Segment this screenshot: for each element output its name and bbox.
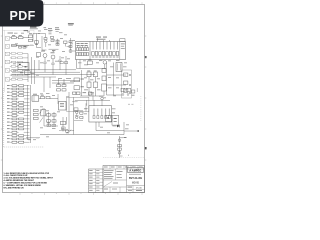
resistor array row 13 — [7, 125, 30, 127]
resistor R38 mid — [62, 83, 66, 87]
input jack J5 — [5, 69, 10, 73]
dotted marks row — [128, 103, 133, 106]
resistor R55 — [52, 120, 56, 122]
resistor array row 8 — [7, 108, 30, 110]
resistor R57 — [52, 124, 56, 126]
svg-text:SVT-CL/AV: SVT-CL/AV — [129, 176, 143, 180]
triode V2B — [41, 51, 47, 62]
dashed feedback line — [140, 96, 142, 121]
array enclosure dashed — [4, 88, 44, 147]
triode V1B — [56, 39, 59, 45]
wire ps top links — [72, 92, 110, 106]
pot VR1 — [34, 109, 44, 114]
pot VR3 — [34, 117, 44, 122]
wire array collector 2 — [30, 85, 32, 143]
resistor R35 — [94, 82, 98, 88]
tone board slide elements — [77, 46, 89, 56]
wire vertical branch x36 — [37, 34, 42, 48]
label LIVE block — [30, 27, 46, 30]
wire drop x96 x99 — [96, 122, 99, 131]
wire long riser x69 — [68, 92, 70, 130]
tone board labels — [77, 43, 88, 46]
driver board outline — [67, 97, 89, 111]
resistor array row 11 — [7, 118, 30, 120]
capacitor C3 — [51, 40, 54, 42]
input network resistor row 3 — [10, 61, 28, 63]
resistor array row 14 — [7, 128, 30, 130]
resistor R32 — [87, 71, 91, 77]
input network resistor row 5 — [10, 70, 28, 72]
EQ capacitor columns — [92, 42, 125, 60]
wire driver verticals — [107, 63, 114, 96]
triode V1A — [44, 34, 47, 48]
label cluster A — [48, 28, 53, 32]
pilot triode V9 — [99, 96, 103, 106]
wire rail B — [40, 134, 124, 136]
wire riser x81.5 — [81, 70, 83, 96]
capacitor C4 — [69, 41, 72, 43]
bias cluster left — [74, 111, 83, 121]
wire x63 drop — [63, 117, 67, 129]
triode V3A — [103, 61, 107, 69]
wire R1 to R2 — [16, 37, 18, 39]
zone tick marks left border — [1, 36, 3, 160]
label INPUT — [8, 32, 14, 35]
label cluster B — [55, 27, 60, 31]
label 12AX7 top — [24, 29, 29, 32]
rectifier block — [73, 92, 87, 95]
resistor R41 — [124, 81, 131, 86]
resistor R39 mid — [57, 89, 61, 91]
label CHANNEL 1 — [68, 23, 74, 25]
resistor R56 — [47, 123, 51, 127]
ground symbol input stage — [52, 50, 55, 51]
input network resistor row 1 — [10, 53, 28, 55]
capacitor C20 — [25, 71, 31, 74]
wire bus line 4 — [12, 76, 56, 78]
resistor R7 — [64, 41, 68, 47]
input jack J3 — [5, 52, 10, 56]
diode D1 — [113, 125, 120, 128]
resistor R3 — [29, 39, 33, 41]
channel 2 gain cluster — [18, 63, 29, 70]
resistor R4b marks — [11, 45, 34, 48]
input jack J4 — [5, 60, 10, 64]
sheet border frame — [3, 5, 145, 193]
input jack J1 — [5, 37, 10, 41]
resistor array row 15 — [7, 131, 30, 133]
resistor array row 2 — [7, 88, 30, 90]
notes block — [4, 172, 54, 190]
resistor array row 3 — [7, 91, 30, 93]
triode V2C — [51, 52, 56, 64]
capacitor C10 — [88, 60, 93, 65]
svg-text:AMPEG: AMPEG — [132, 169, 142, 172]
label above EQ box — [96, 37, 107, 40]
EQ top corner box — [120, 39, 125, 42]
tolerance notes cell — [103, 169, 127, 180]
fuse F1 — [89, 92, 92, 95]
resistor array row 10 — [7, 115, 30, 117]
resistor R1 — [12, 35, 17, 39]
tone switch assembly box — [76, 42, 126, 60]
relay K1 box — [32, 94, 39, 101]
wire EQ box outputs down — [77, 60, 81, 69]
input network resistor row 2 — [10, 57, 28, 59]
dashed shield boundary top — [4, 31, 35, 93]
resistor R8 — [69, 46, 72, 48]
revisions header dashed — [103, 155, 145, 158]
resistor R30 stack — [74, 78, 84, 82]
ground symbol bottom — [62, 129, 65, 131]
svg-text:6. WARNING: LETHAL VOLTAGES IN: 6. WARNING: LETHAL VOLTAGES INSIDE — [4, 184, 42, 187]
wire cathode return — [49, 48, 59, 50]
wire EQ feed stubs — [98, 38, 110, 42]
resistor R2b row — [12, 44, 30, 46]
wire array collector 1 — [27, 85, 29, 140]
resistor array row 18 — [7, 141, 30, 143]
resistor R36 chain right — [102, 69, 107, 97]
capacitor C50 — [41, 110, 46, 116]
triode V2A — [69, 50, 76, 53]
resistor array row 17 — [7, 138, 30, 140]
wire driver rungs — [107, 75, 127, 95]
wire J1 to R1 — [10, 37, 12, 39]
resistor R53 — [52, 114, 56, 116]
label specks mid — [58, 78, 101, 93]
wire mid drops — [44, 77, 80, 92]
zone tick marks top border — [20, 2, 142, 4]
wire corner x42 — [42, 36, 47, 50]
PDF badge — [0, 0, 43, 27]
wire R2 to C1 node — [23, 37, 29, 39]
resistor R42 — [124, 89, 131, 94]
svg-text:4: 4 — [128, 155, 129, 157]
input jack J2 — [5, 45, 10, 49]
resistor R34 — [94, 71, 98, 77]
title block header row — [103, 166, 145, 170]
resistor R6 — [51, 36, 54, 38]
input network resistor row 6 — [10, 74, 28, 76]
resistor R31 stack — [74, 86, 84, 90]
resistor R37 mid — [57, 83, 61, 87]
wire rail C — [26, 138, 40, 140]
svg-text:MD-95: MD-95 — [132, 182, 140, 184]
resistor R33 — [87, 82, 91, 88]
wire mid join — [39, 94, 58, 104]
wire vertical risers left — [28, 54, 35, 84]
wire plate row — [38, 33, 46, 35]
resistor R40 — [124, 73, 131, 76]
zone tick marks right border — [145, 36, 147, 160]
relay cluster mid-bottom — [59, 127, 74, 133]
filter capacitor bank — [89, 106, 112, 122]
resistor array row 7 — [7, 105, 30, 107]
resistor R51 — [46, 96, 50, 98]
resistor array row 12 — [7, 121, 30, 123]
wire center chains — [80, 77, 104, 96]
wire tube drops to bus — [39, 56, 66, 75]
wire node to grid bus — [33, 34, 40, 42]
wire bus line 1 — [12, 69, 76, 71]
resistor R50 — [41, 95, 45, 99]
pot VR2 — [34, 113, 39, 115]
protection network cluster — [121, 88, 137, 96]
resistor array row 1 — [7, 85, 30, 87]
wire bus line 3 — [12, 74, 95, 76]
input jack J6 — [5, 78, 10, 82]
resistor array row 9 — [7, 111, 30, 113]
IC U1 box — [59, 102, 67, 111]
resistor array row 5 — [7, 98, 30, 100]
standby switch S2 — [106, 116, 113, 122]
misc value labels — [13, 29, 129, 138]
wire lower lattice — [44, 108, 58, 126]
speaker relay box — [112, 116, 119, 126]
resistor R2 — [18, 35, 23, 39]
capacitor C2 — [35, 41, 39, 45]
wire bias stub marks — [85, 103, 88, 111]
output jack chain — [118, 136, 127, 158]
bias network dashed box — [122, 70, 132, 98]
svg-text:PDF: PDF — [9, 9, 35, 23]
wire output corner — [96, 122, 139, 135]
bus hanging resistors — [44, 60, 68, 65]
approvals table — [89, 169, 104, 193]
capacitor C1 — [29, 33, 33, 37]
capacitor C51 — [61, 121, 66, 124]
zone tick marks bottom border — [20, 193, 142, 196]
wire long riser x73.5 — [73, 98, 75, 135]
wire bus line 2 — [12, 71, 80, 73]
coupling transformer box — [116, 63, 122, 72]
wire interstage vertical — [67, 38, 71, 52]
resistor array row 4 — [7, 95, 30, 97]
resistor array row 16 — [7, 135, 30, 137]
input network resistor row 7 — [10, 78, 28, 80]
capacitor C21 — [37, 53, 41, 57]
scale cell diagonal — [103, 182, 127, 193]
resistor R54 — [47, 120, 51, 122]
part number row — [127, 186, 145, 193]
capacitor C12 mid — [62, 89, 66, 91]
resistor R52 — [47, 114, 51, 116]
wire mid horizontal bus — [77, 68, 107, 70]
drawing title text — [129, 176, 143, 185]
title block outer — [103, 166, 145, 193]
Ampeg logo cell — [127, 166, 144, 193]
resistor array row 6 — [7, 101, 30, 103]
svg-text:NTL AND PRINTED US: NTL AND PRINTED US — [4, 186, 25, 189]
input network resistor row 4 — [10, 66, 28, 68]
